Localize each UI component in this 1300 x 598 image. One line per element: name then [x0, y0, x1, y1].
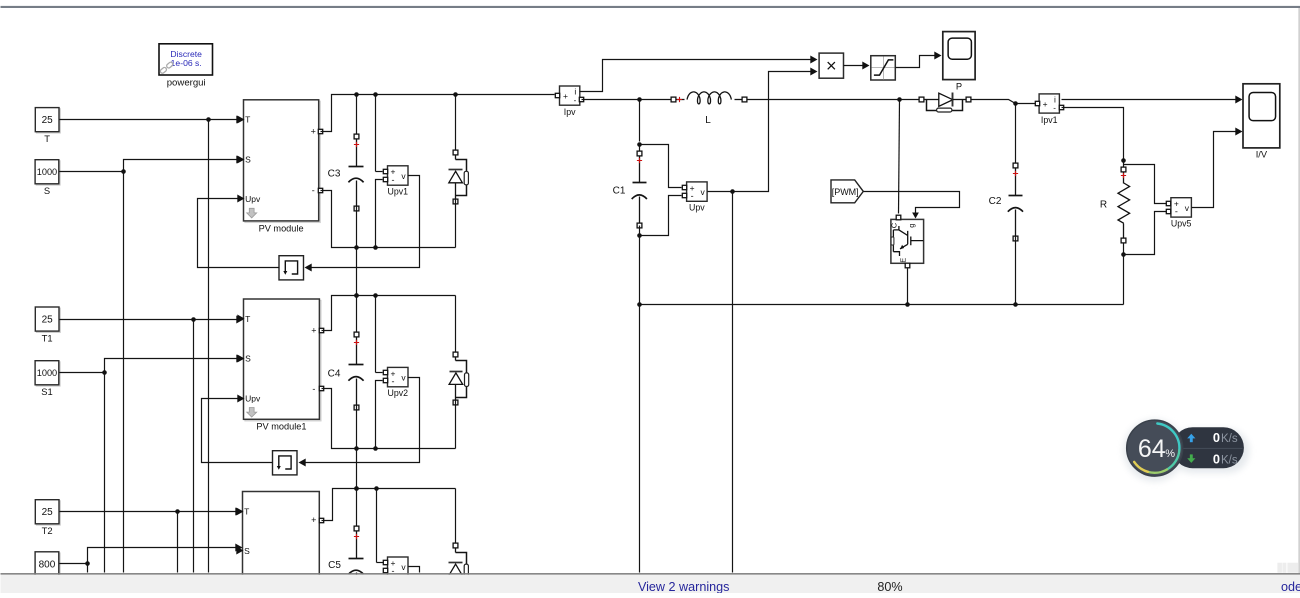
svg-text:25: 25: [42, 507, 54, 518]
wire S1 to PV module1: [60, 359, 238, 373]
wire Ipv i to product: [580, 60, 813, 92]
svg-text:Upv: Upv: [689, 203, 705, 213]
node R bottom: [1121, 252, 1126, 257]
svg-text:K/s: K/s: [1221, 433, 1238, 445]
PV module: [237, 100, 322, 234]
wire R bottom to rail: [1123, 255, 1125, 305]
svg-text:-: -: [691, 191, 694, 201]
svg-text:1000: 1000: [37, 368, 57, 378]
constant T 25: [35, 108, 60, 144]
scope P: [943, 32, 975, 92]
memory block 1: [279, 256, 304, 280]
wire rail3 to diode D3: [455, 489, 457, 543]
current measurement Ipv1: [1035, 94, 1063, 125]
wire PV module - bottom rail: [321, 191, 456, 248]
svg-text:+: +: [311, 515, 316, 525]
node S junction: [121, 169, 126, 174]
wire to C4: [356, 296, 358, 333]
node T1 junction: [191, 317, 196, 322]
zoom control squares: [1277, 563, 1282, 573]
capacitor C4: [328, 332, 364, 410]
saturation block: [871, 56, 896, 80]
wire T to PV module: [60, 119, 238, 121]
wire PV module + to top rail: [321, 95, 555, 132]
svg-text:K/s: K/s: [1221, 455, 1238, 467]
svg-text:v: v: [1185, 203, 1190, 213]
svg-text:-: -: [312, 186, 315, 196]
wire IGBT E to bottom rail: [907, 269, 909, 305]
node bot2 C4: [354, 446, 359, 451]
svg-text:Upv5: Upv5: [1171, 218, 1192, 228]
svg-text:S: S: [44, 185, 50, 196]
svg-text:-: -: [392, 175, 395, 185]
node Upv signal branch: [730, 189, 735, 194]
constant T2 25: [35, 500, 60, 536]
wire T1 to PV module1: [60, 319, 238, 321]
wire Ipv - to inductor: [582, 99, 674, 101]
svg-text:g: g: [907, 224, 916, 228]
constant T1 25: [35, 307, 60, 343]
svg-text:S: S: [245, 354, 251, 364]
node C1 top branch: [637, 97, 642, 102]
svg-text:Ipv1: Ipv1: [1041, 115, 1058, 125]
wire R bottom to Upv5 -: [1124, 212, 1167, 255]
node bot2 Upv2: [373, 446, 378, 451]
svg-text:S1: S1: [41, 386, 52, 397]
svg-text:T: T: [245, 115, 250, 125]
capacitor C1: [613, 151, 647, 228]
node IGBT branch: [897, 97, 902, 102]
wire Upv5 v to scope: [1192, 132, 1240, 208]
svg-text:-: -: [392, 376, 395, 386]
svg-text:%: %: [1165, 448, 1175, 460]
wire C1 node down to PV string return: [639, 236, 641, 573]
wire rail to diode D1: [455, 95, 457, 151]
svg-text:ode: ode: [1281, 580, 1300, 593]
node S2 junction: [85, 561, 90, 566]
wire PV module1 - bottom rail 2: [322, 389, 456, 449]
wire C2 to bottom rail: [1015, 236, 1017, 305]
svg-text:C4: C4: [328, 369, 341, 380]
svg-text:-: -: [1175, 207, 1178, 217]
voltage measurement Upv: [682, 182, 707, 213]
diode D3 (bypass): [449, 543, 469, 596]
svg-text:64: 64: [1138, 435, 1166, 463]
svg-text:powergui: powergui: [167, 78, 206, 89]
canvas right edge: [1298, 8, 1300, 573]
svg-text:80%: 80%: [877, 580, 902, 593]
wire C4 to bottom rail 2: [356, 405, 358, 449]
wire Upv signal down: [732, 192, 734, 573]
node bot1 Upv1: [373, 245, 378, 250]
svg-text:+: +: [311, 126, 316, 136]
svg-text:25: 25: [42, 314, 54, 325]
resistor R: [1100, 161, 1130, 243]
wire T bus down: [208, 120, 210, 573]
wire Upv v to product: [708, 72, 813, 192]
node bottom IGBT: [905, 302, 910, 307]
svg-text:T1: T1: [42, 332, 53, 343]
svg-text:Upv: Upv: [245, 393, 261, 403]
wire diode D to Ipv1: [971, 100, 1036, 104]
svg-text:v: v: [700, 187, 705, 197]
diode D (boost): [919, 93, 971, 113]
svg-text:Upv: Upv: [245, 194, 261, 204]
wire D2 to bottom rail 2: [455, 401, 457, 449]
wire rail to Upv1 +: [375, 95, 377, 172]
svg-text:T2: T2: [42, 525, 53, 536]
IGBT: [890, 215, 924, 268]
node bot1 C3: [354, 245, 359, 250]
node bottom C1: [637, 302, 642, 307]
capacitor C3: [328, 134, 364, 211]
svg-text:+: +: [1043, 99, 1048, 109]
diode D1 (bypass): [449, 150, 469, 204]
memory block 2: [273, 451, 298, 475]
svg-text:0: 0: [1213, 452, 1220, 467]
wire Upv1 - to bottom rail: [376, 180, 383, 248]
window top border: [1, 6, 1300, 8]
svg-text:Upv1: Upv1: [387, 187, 408, 197]
svg-text:1e-06 s.: 1e-06 s.: [171, 58, 202, 68]
svg-text:-: -: [312, 384, 315, 394]
voltage measurement Upv5: [1166, 198, 1191, 229]
wire C1 to Upv +: [640, 145, 682, 188]
wire inductor to diode D: [747, 99, 922, 101]
capacitor C2: [989, 163, 1023, 241]
svg-text:-: -: [574, 96, 577, 105]
constant S2 800: [35, 552, 60, 577]
svg-text:1000: 1000: [37, 167, 57, 177]
wire S2 bus down: [87, 564, 89, 573]
node T2 junction: [175, 509, 180, 514]
voltage measurement Upv3: [383, 557, 408, 576]
wire rail2 to Upv2 +: [375, 296, 377, 373]
wire rail to C1: [639, 100, 641, 142]
wire S1 bus down: [104, 373, 106, 573]
svg-text:[PWM]: [PWM]: [832, 187, 859, 197]
node rail2 C4: [354, 293, 359, 298]
svg-text:E: E: [899, 258, 908, 263]
wire PWM to IGBT gate: [864, 192, 960, 213]
svg-text:T: T: [245, 314, 250, 324]
wire S bus down: [123, 172, 125, 573]
wire memory to Upv input: [198, 199, 280, 268]
scope I/V: [1243, 84, 1280, 160]
wire converter bottom rail: [640, 304, 1124, 306]
wire T2 bus down: [177, 512, 179, 573]
inductor L: [671, 92, 747, 126]
svg-text:C3: C3: [328, 169, 341, 180]
constant S1 1000: [35, 361, 60, 397]
wire S to PV module: [60, 160, 238, 172]
svg-text:Upv2: Upv2: [387, 388, 408, 398]
current measurement Ipv: [555, 86, 583, 117]
wire series link section2-3: [356, 449, 358, 489]
svg-text:Ipv: Ipv: [564, 107, 576, 117]
wire to C5: [356, 489, 358, 527]
node rail2 Upv2: [373, 293, 378, 298]
PV module1: [237, 299, 323, 432]
svg-text:R: R: [1100, 200, 1107, 211]
svg-text:S: S: [245, 154, 251, 164]
svg-text:+: +: [563, 91, 568, 101]
svg-text:C: C: [890, 222, 899, 228]
svg-text:I/V: I/V: [1256, 150, 1268, 160]
wire product to saturation: [844, 65, 865, 67]
wire Upv - to C1 bottom: [640, 196, 682, 236]
node rail1 Upv1: [373, 92, 378, 97]
svg-text:PV module: PV module: [259, 223, 304, 233]
node bottom C2: [1013, 302, 1018, 307]
svg-text:C1: C1: [613, 186, 626, 197]
capacitor C5: [328, 526, 363, 598]
wire Upv2 - to bottom rail 2: [376, 381, 383, 449]
node rail1 D1: [453, 92, 458, 97]
wire to C2: [1015, 104, 1017, 164]
node S1 junction: [102, 370, 107, 375]
svg-text:C2: C2: [989, 196, 1002, 207]
wire T2 to PV module2: [60, 511, 237, 513]
wire S2 to PV module2: [60, 548, 237, 564]
wire C3 to bottom rail: [356, 207, 358, 248]
wire PV module2 + to top rail 3: [322, 489, 456, 521]
wire Ipv1 i to scope: [1062, 99, 1240, 101]
node C1/Upv +: [637, 142, 642, 147]
powergui block: [159, 44, 213, 89]
svg-text:P: P: [956, 81, 962, 91]
From tag [PWM]: [831, 180, 863, 203]
node R top: [1121, 158, 1126, 163]
svg-text:T: T: [244, 506, 249, 516]
svg-text:-: -: [1053, 104, 1056, 113]
voltage measurement Upv1: [383, 166, 408, 197]
svg-text:0: 0: [1213, 430, 1220, 445]
node rail1 C3: [354, 92, 359, 97]
status bar: [1, 573, 1300, 575]
svg-text:800: 800: [39, 559, 56, 570]
svg-text:L: L: [705, 115, 711, 126]
diode D2 (bypass): [449, 352, 469, 405]
PV module2 (clipped): [236, 492, 323, 598]
svg-text:+: +: [311, 326, 316, 336]
node C2 top branch: [1013, 101, 1018, 106]
svg-text:T: T: [44, 133, 50, 144]
wire Ipv1 - to R: [1062, 108, 1124, 161]
wire series link section1-2: [356, 248, 358, 296]
wire saturation to scope P: [896, 56, 937, 68]
wire to C3: [356, 95, 358, 135]
svg-text:25: 25: [42, 115, 54, 126]
product block: [819, 53, 843, 78]
wire rail3 to Upv3 +: [376, 489, 378, 563]
wire memory2 to Upv input: [202, 399, 273, 463]
wire PV module1 + to top rail 2: [322, 296, 456, 331]
svg-text:View 2 warnings: View 2 warnings: [638, 580, 729, 593]
wire T1 bus down: [193, 320, 195, 573]
node C1/Upv -: [637, 233, 642, 238]
svg-text:C5: C5: [328, 560, 341, 571]
wire Upv1 v to memory: [311, 176, 420, 268]
voltage measurement Upv2: [383, 367, 408, 398]
node T junction: [206, 117, 211, 122]
wire Upv3 v down: [409, 567, 420, 573]
wire R top to Upv5 +: [1124, 165, 1167, 204]
wire Upv2 v to memory 2: [305, 378, 420, 463]
wire rail to IGBT C: [899, 100, 900, 214]
svg-text:PV module1: PV module1: [256, 422, 306, 432]
constant S 1000: [35, 160, 60, 196]
wire D1 to bottom rail: [455, 199, 457, 248]
svg-text:S: S: [244, 546, 250, 556]
